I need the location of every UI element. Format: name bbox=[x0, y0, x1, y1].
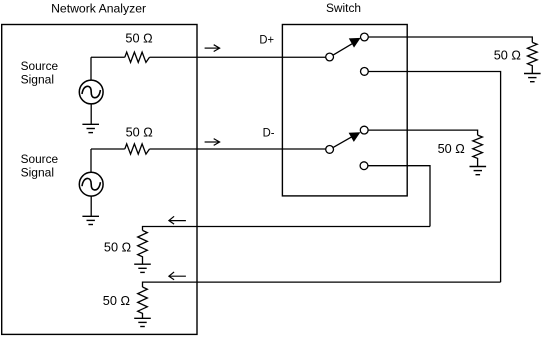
wire source V2 bottom bbox=[90, 196, 92, 216]
switch S2 arrowhead bbox=[349, 132, 361, 142]
switch S2 throw 1 node bbox=[360, 126, 368, 134]
wire D+ from R1 to switch S1 bbox=[150, 56, 326, 58]
svg-text:D+: D+ bbox=[259, 33, 274, 47]
arrow left return B bbox=[169, 272, 186, 280]
ac source V1 bbox=[79, 80, 103, 104]
wire S1 throw2 down right side bbox=[368, 72, 500, 283]
svg-text:50 Ω: 50 Ω bbox=[126, 124, 153, 139]
svg-text:50 Ω: 50 Ω bbox=[103, 293, 130, 308]
wire source V1 bottom bbox=[90, 104, 92, 124]
resistor R5 50ohm bbox=[138, 230, 148, 264]
wire S2 throw1 to R4 bbox=[368, 130, 478, 135]
svg-text:Network Analyzer: Network Analyzer bbox=[51, 2, 146, 16]
switch S1 throw 1 node bbox=[361, 33, 369, 41]
wire D- left of R2 bbox=[91, 148, 125, 150]
svg-text:50 Ω: 50 Ω bbox=[104, 239, 131, 254]
svg-text:50 Ω: 50 Ω bbox=[494, 47, 521, 62]
ground G6 bbox=[134, 318, 151, 326]
ground G5 bbox=[134, 264, 151, 272]
wire S1 throw1 to R3 bbox=[368, 37, 532, 42]
wire D- from R2 to switch S2 bbox=[150, 148, 326, 150]
switch S2 throw 2 node bbox=[360, 162, 368, 170]
resistor R4 50ohm bbox=[473, 135, 483, 166]
svg-text:Source: Source bbox=[21, 59, 59, 73]
arrow left return A bbox=[169, 216, 186, 224]
svg-text:Switch: Switch bbox=[326, 1, 361, 15]
ground G2 bbox=[82, 216, 99, 224]
svg-text:Signal: Signal bbox=[21, 165, 54, 179]
wire S2 throw2 to return A bbox=[368, 166, 430, 227]
arrow right D+ bbox=[205, 45, 220, 52]
wire source V2 top bbox=[90, 149, 92, 172]
svg-text:50 Ω: 50 Ω bbox=[438, 141, 465, 156]
switch S2 lever bbox=[333, 137, 351, 148]
resistor R2 50ohm bbox=[125, 144, 150, 154]
box Network Analyzer bbox=[2, 25, 197, 335]
switch S1 lever bbox=[333, 44, 352, 55]
resistor R6 50ohm bbox=[138, 287, 148, 318]
arrow right D- bbox=[205, 139, 220, 146]
svg-text:50 Ω: 50 Ω bbox=[125, 31, 152, 46]
wire return A bbox=[143, 227, 431, 231]
svg-text:D-: D- bbox=[263, 126, 275, 140]
wire source V1 top bbox=[90, 57, 92, 80]
switch S1 arrowhead bbox=[349, 38, 361, 48]
wire D+ left of R1 bbox=[91, 56, 125, 58]
ground G4 bbox=[470, 167, 487, 175]
svg-text:Signal: Signal bbox=[21, 73, 54, 87]
resistor R1 50ohm bbox=[125, 52, 150, 62]
switch S1 common node bbox=[326, 53, 334, 61]
resistor R3 50ohm bbox=[528, 42, 538, 73]
ground G1 bbox=[82, 124, 99, 132]
box Switch bbox=[282, 25, 407, 196]
wire return B bbox=[143, 282, 501, 287]
ac source V2 bbox=[79, 172, 103, 196]
switch S2 common node bbox=[326, 146, 334, 154]
ground G3 bbox=[524, 74, 541, 82]
svg-text:Source: Source bbox=[21, 152, 59, 166]
switch S1 throw 2 node bbox=[361, 68, 369, 76]
